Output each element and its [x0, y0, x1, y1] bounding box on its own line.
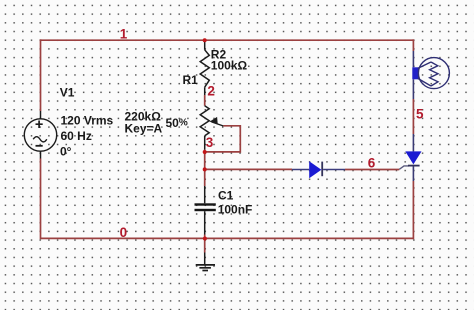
thyristor SCR cathode bar: [408, 165, 420, 167]
wire diode right lead: [323, 169, 345, 171]
svg-text:0°: 0°: [60, 145, 72, 159]
wire net 2 red: [204, 95, 206, 106]
wire right vertical bottom red: [412, 181, 414, 239]
source V1 plus sign: [36, 121, 43, 129]
potentiometer R1 wiper lead: [212, 122, 224, 126]
wire V1 top lead: [40, 111, 42, 120]
wire right vertical top red: [412, 39, 414, 51]
lamp X1 lead-in lines: [418, 62, 431, 86]
ground: [196, 265, 215, 271]
wire SCR cathode lead: [412, 165, 414, 181]
wire top rail net 1: [41, 39, 414, 41]
wire net 6 red: [345, 169, 399, 171]
svg-text:3: 3: [206, 135, 214, 150]
resistor R2: [200, 50, 209, 87]
wire left vertical lower: [40, 159, 42, 240]
thyristor SCR triangle: [405, 151, 421, 164]
wire ground stub red: [204, 238, 206, 252]
wire ground lead black: [204, 253, 206, 265]
junction node 0: [203, 237, 207, 241]
wire C1 to bottom rail: [204, 235, 206, 239]
capacitor C1 bottom plate: [195, 209, 216, 211]
svg-text:50%: 50%: [166, 116, 188, 130]
lamp X1 terminal square: [412, 67, 418, 79]
lamp X1 filament: [430, 62, 438, 86]
svg-text:120 Vrms: 120 Vrms: [61, 114, 114, 128]
svg-text:5: 5: [416, 106, 424, 121]
svg-text:Key=A: Key=A: [125, 122, 163, 136]
wire net 3 to C1: [204, 169, 206, 186]
svg-text:1: 1: [120, 27, 128, 42]
wire left vertical upper: [40, 39, 42, 111]
svg-text:100nF: 100nF: [218, 203, 253, 217]
wire C1 bottom lead: [204, 211, 206, 234]
wire R2 bottom lead: [204, 87, 206, 95]
diode D1: [309, 161, 321, 178]
source V1 minus sign: [36, 145, 43, 147]
junction node 1: [203, 38, 207, 42]
source V1 sine wave: [33, 137, 47, 142]
wire pot bottom lead: [204, 136, 206, 150]
wire gate net left red: [205, 168, 292, 170]
potentiometer R1 wiper arrowhead: [209, 117, 217, 124]
svg-text:6: 6: [368, 156, 376, 171]
wire wiper return net 3: [205, 126, 240, 152]
lamp X1 bulb circle: [418, 58, 449, 89]
svg-text:2: 2: [207, 84, 215, 99]
wire gate jog: [399, 166, 409, 169]
svg-text:R1: R1: [183, 73, 199, 87]
svg-text:0: 0: [120, 225, 128, 240]
wire net 5 red: [412, 99, 414, 134]
wire C1 top lead: [204, 186, 206, 203]
diode D1 cathode bar: [321, 162, 323, 177]
potentiometer R1 body: [200, 106, 209, 136]
wire V1 bottom lead: [40, 151, 42, 159]
wire SCR anode lead: [412, 134, 414, 151]
source V1 circle: [24, 119, 56, 151]
wire bottom rail net 0: [41, 237, 414, 239]
svg-text:60 Hz: 60 Hz: [61, 129, 92, 143]
capacitor C1 top plate: [195, 203, 216, 205]
svg-text:C1: C1: [218, 189, 234, 203]
wire net 3 vertical: [204, 150, 206, 170]
svg-text:100kΩ: 100kΩ: [211, 59, 248, 73]
wire R2 top lead: [204, 40, 206, 50]
wire diode left lead: [292, 169, 309, 171]
wire lamp upper lead blue: [412, 51, 414, 67]
junction node 3 wiper: [203, 150, 207, 154]
junction node 3 gate: [203, 167, 207, 171]
wire lamp lower lead blue: [412, 79, 414, 99]
svg-text:V1: V1: [60, 86, 75, 100]
